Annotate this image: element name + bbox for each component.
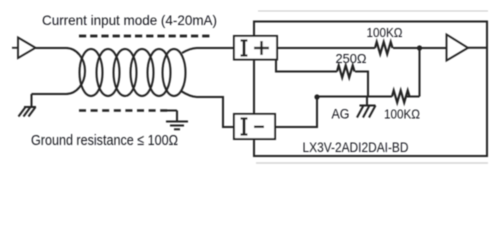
- wire junction down to R3 net: [419, 48, 421, 97]
- svg-text:Current input mode (4-20mA): Current input mode (4-20mA): [42, 12, 217, 28]
- stub I+ bottom corner down: [275, 59, 277, 72]
- wire cable top to terminal I+: [182, 48, 234, 53]
- svg-text:250Ω: 250Ω: [336, 51, 367, 66]
- wire I- to junction: [276, 97, 317, 127]
- wire cable bottom to terminal I-: [181, 91, 234, 127]
- wire AG net horizontal: [317, 96, 392, 98]
- scan artifact: faint bottom shadow: [256, 162, 488, 164]
- ground (signal source): [19, 94, 37, 117]
- svg-text:100KΩ: 100KΩ: [384, 107, 420, 122]
- junction node at I- branch: [314, 94, 319, 99]
- svg-text:AG: AG: [332, 107, 350, 122]
- terminal I-: [234, 114, 275, 139]
- wire A1 output to cable: [36, 47, 68, 49]
- module LX3V-2ADI2DAI-BD outline: [254, 22, 487, 157]
- op-amp A2: [447, 35, 469, 61]
- resistor R3 100K: [392, 91, 410, 103]
- shield dashed line (bottom): [79, 109, 168, 112]
- wire ground to cable bottom: [32, 93, 68, 95]
- svg-text:LX3V-2ADI2DAI-BD: LX3V-2ADI2DAI-BD: [303, 140, 409, 155]
- node AG ground: [357, 97, 376, 118]
- ground (cable shield): [166, 111, 188, 130]
- wire A2 output: [468, 47, 487, 49]
- wire R1 to op-amp: [393, 47, 446, 49]
- resistor R2 250 ohm: [337, 66, 355, 78]
- shield dashed line (top): [79, 35, 211, 38]
- svg-text:Ground resistance ≤ 100Ω: Ground resistance ≤ 100Ω: [31, 132, 178, 149]
- resistor R1 100K: [375, 42, 393, 54]
- wire I+ to R1: [277, 47, 375, 49]
- twisted pair cable W1: [66, 48, 186, 96]
- wire stub to R2: [275, 71, 337, 73]
- terminal I+: [234, 36, 277, 60]
- amplifier A1 (signal source buffer): [18, 38, 36, 59]
- svg-text:100KΩ: 100KΩ: [367, 25, 403, 40]
- wire R2 to AG node: [355, 72, 368, 97]
- junction node at op-amp input: [417, 45, 422, 50]
- scan artifact: faint top line: [258, 10, 488, 12]
